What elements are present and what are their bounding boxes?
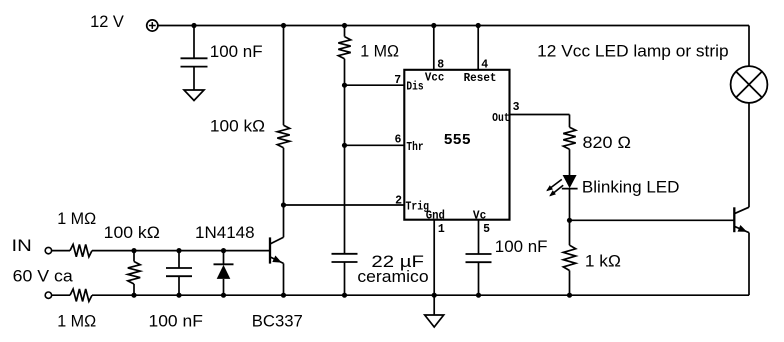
- svg-text:100 nF: 100 nF: [149, 311, 203, 330]
- svg-text:IN: IN: [12, 236, 32, 255]
- svg-text:12 V: 12 V: [90, 12, 124, 31]
- svg-text:1 MΩ: 1 MΩ: [360, 41, 399, 60]
- svg-text:5: 5: [483, 223, 490, 236]
- svg-text:1: 1: [438, 223, 445, 236]
- svg-text:Gnd: Gnd: [426, 210, 445, 223]
- svg-text:100 nF: 100 nF: [210, 42, 263, 61]
- svg-text:BC337: BC337: [252, 311, 303, 330]
- svg-text:Vc: Vc: [473, 210, 486, 223]
- svg-text:60 V ca: 60 V ca: [13, 267, 74, 286]
- svg-text:4: 4: [481, 59, 488, 72]
- svg-text:Vcc: Vcc: [425, 72, 444, 85]
- svg-text:100 nF: 100 nF: [495, 237, 548, 256]
- svg-text:100 kΩ: 100 kΩ: [210, 117, 265, 136]
- svg-text:Reset: Reset: [464, 72, 497, 85]
- svg-text:ceramico: ceramico: [357, 267, 428, 286]
- svg-text:555: 555: [444, 133, 471, 149]
- svg-text:Dis: Dis: [406, 80, 423, 93]
- svg-text:100 kΩ: 100 kΩ: [104, 223, 160, 242]
- svg-text:12 Vcc LED lamp or strip: 12 Vcc LED lamp or strip: [537, 41, 728, 60]
- svg-text:1N4148: 1N4148: [195, 223, 255, 242]
- svg-text:1 MΩ: 1 MΩ: [57, 311, 96, 330]
- svg-text:1 kΩ: 1 kΩ: [585, 251, 621, 270]
- svg-text:1 MΩ: 1 MΩ: [57, 209, 96, 228]
- svg-text:6: 6: [394, 134, 401, 147]
- svg-text:Blinking LED: Blinking LED: [582, 177, 680, 196]
- svg-text:2: 2: [395, 195, 402, 208]
- svg-text:8: 8: [437, 59, 444, 72]
- svg-text:7: 7: [394, 74, 401, 87]
- svg-text:820 Ω: 820 Ω: [583, 133, 632, 152]
- svg-text:Thr: Thr: [406, 141, 423, 154]
- svg-text:3: 3: [513, 101, 520, 114]
- svg-text:Out: Out: [492, 112, 510, 125]
